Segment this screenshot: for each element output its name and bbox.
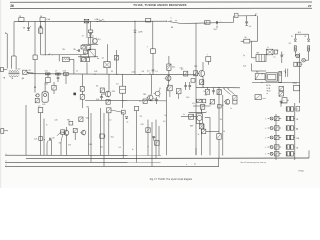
- svg-text:6,8: 6,8: [96, 86, 98, 88]
- wire Q7 down: [201, 129, 203, 155]
- label 5,6 k1: [116, 84, 118, 86]
- svg-text:Т: Т: [207, 55, 208, 57]
- box DR choke: [107, 108, 111, 113]
- resistor R22 hatched v: [279, 71, 282, 82]
- box small x123: [121, 110, 125, 114]
- box R48: [176, 89, 181, 94]
- svg-text:4п 1,0: 4п 1,0: [16, 68, 21, 70]
- rail x47 low: [47, 140, 48, 155]
- transistor Q7 big: [197, 112, 207, 124]
- svg-text:0,5: 0,5: [192, 103, 194, 105]
- wire vertical x35: [34, 21, 36, 55]
- svg-text:П13: П13: [153, 99, 156, 101]
- label BK under switch: [171, 27, 173, 29]
- node y87 x203: [202, 87, 203, 88]
- node Q7 junction: [201, 110, 202, 111]
- left cluster resistor R12: [80, 95, 84, 100]
- svg-text:2Тг: 2Тг: [140, 116, 143, 118]
- svg-text:ПЧ: ПЧ: [62, 49, 64, 51]
- capacitor C10: [155, 97, 158, 104]
- svg-text:Гн: Гн: [46, 124, 48, 126]
- terminal left edge: [1, 67, 8, 71]
- svg-text:5,0: 5,0: [284, 71, 286, 73]
- scan edge artifact left: [0, 0, 1, 188]
- label 10k low: [100, 146, 103, 148]
- tiny label pair: [263, 98, 266, 100]
- wire x110 stage: [106, 68, 108, 75]
- box R47 hatched: [168, 85, 173, 91]
- transistor Q5: [165, 75, 171, 81]
- left cluster resistor R11: [80, 87, 84, 92]
- ladder right rail: [294, 103, 296, 160]
- node bus left corner: [13, 22, 15, 56]
- svg-text:Т: Т: [147, 47, 148, 49]
- box on x219: [217, 134, 221, 140]
- svg-text:40: 40: [40, 16, 42, 18]
- box C15 below: [199, 124, 204, 129]
- label 0,25 low: [141, 124, 144, 126]
- wire step up x233: [233, 16, 235, 23]
- rail x152: [151, 122, 153, 166]
- wire right cluster to ladder: [281, 103, 287, 104]
- label 20,0 c12: [186, 97, 189, 99]
- node junction x135: [134, 21, 135, 22]
- label 0,25 q4: [180, 67, 183, 69]
- wire mid bus: [28, 74, 196, 75]
- label 0.5 top: [192, 103, 194, 105]
- capacitor C7 below bus: [57, 74, 60, 82]
- node bottom x148: [148, 146, 149, 147]
- rail x91: [90, 113, 92, 162]
- svg-text:20,0: 20,0: [186, 97, 189, 99]
- label 0,25 gr: [54, 120, 57, 122]
- svg-text:б: б: [265, 147, 266, 149]
- rail x40.5: [40, 113, 42, 156]
- svg-text:10: 10: [261, 74, 263, 76]
- resistor R9 below Q2: [106, 100, 110, 105]
- wire lamp drop a: [294, 34, 296, 38]
- svg-text:СВ: СВ: [296, 119, 298, 121]
- rail x148: [147, 120, 149, 156]
- wire x35 to bus: [34, 60, 36, 74]
- box R25 left: [255, 72, 265, 80]
- label 0,5 t1: [102, 57, 104, 59]
- resistor R28 hatched: [308, 46, 310, 51]
- wire drop x40.7: [40, 21, 42, 28]
- svg-text:TU160, TU160B AM/160 RECEIVE: TU160, TU160B AM/160 RECEIVERS: [133, 3, 186, 7]
- note under ladder: [241, 162, 267, 164]
- svg-text:1,0: 1,0: [223, 131, 225, 133]
- box R41 top: [210, 99, 214, 104]
- wire x40.7 below box: [40, 33, 42, 55]
- label 3Ch: [220, 119, 222, 121]
- svg-text:0,25: 0,25: [54, 120, 57, 122]
- rail x26 vertical: [25, 105, 27, 155]
- resistor R10 left Q3: [143, 99, 147, 103]
- node y82 x262: [261, 82, 262, 83]
- svg-text:40,5: 40,5: [172, 66, 175, 68]
- wire R33: [53, 82, 55, 94]
- label 0,25 right: [243, 65, 246, 67]
- switch bank row 1: [286, 107, 295, 111]
- wire antenna down: [6, 34, 8, 69]
- svg-text:0,5: 0,5: [119, 147, 121, 149]
- node coil out: [27, 72, 34, 73]
- label ukv ladder: [296, 138, 299, 140]
- node mid x58: [57, 74, 58, 75]
- svg-text:ВЧ: ВЧ: [74, 49, 76, 51]
- svg-text:0,25: 0,25: [243, 65, 246, 67]
- resistor R2 box: [205, 21, 210, 25]
- wire lamp top: [295, 32, 308, 34]
- transformer L2 IF can: [62, 57, 70, 61]
- fuse box crossed on bus: [84, 19, 89, 23]
- svg-text:2Т: 2Т: [55, 71, 57, 73]
- wire x116 column: [116, 50, 118, 74]
- label 6,8 bus: [142, 71, 144, 73]
- node x44 y139.7: [44, 139, 45, 140]
- transistor Q2: [104, 91, 115, 98]
- transistor Q12: [154, 90, 160, 98]
- wire Q4 emitter up: [202, 62, 204, 70]
- wire y112 row: [189, 111, 206, 113]
- label sv coil: [28, 70, 30, 72]
- svg-text:8,2: 8,2: [289, 43, 291, 45]
- rail x136.5: [136, 111, 138, 163]
- ladder labels right: [296, 119, 298, 130]
- svg-text:Д7Ж: Д7Ж: [139, 31, 143, 33]
- label P41 small: [67, 119, 73, 125]
- connector tab 2: [235, 13, 238, 17]
- wire bottom lader join: [294, 157, 296, 159]
- text block AC: [266, 84, 271, 95]
- wire y87 horizontal: [196, 86, 240, 89]
- transformer T3 double box: [266, 73, 278, 81]
- label tr t2: [243, 55, 245, 57]
- svg-text:27: 27: [308, 4, 312, 8]
- svg-text:10к: 10к: [100, 146, 103, 148]
- node mid x66: [65, 74, 66, 75]
- wire AGC line y100.5: [85, 99, 166, 102]
- svg-text:25,0: 25,0: [111, 137, 114, 139]
- wire T2 left: [252, 55, 257, 57]
- transformer T1 box: [88, 38, 93, 45]
- svg-text:0,1: 0,1: [222, 105, 224, 107]
- wire y44.4 row: [82, 43, 98, 45]
- drawing number P2-60: [299, 171, 304, 173]
- wire q12 links: [160, 88, 179, 99]
- capacitor C2 box 20/25: [39, 28, 43, 34]
- rail x159: [158, 126, 160, 155]
- wire box T down: [207, 61, 209, 64]
- node y82 x281: [280, 82, 281, 83]
- wire x223 down: [222, 95, 224, 156]
- label 100 r17: [203, 91, 206, 93]
- label 0,1 bus: [155, 71, 157, 73]
- node mid x117: [116, 74, 117, 75]
- page number 26: [10, 4, 14, 8]
- box R40 stack a: [197, 99, 202, 102]
- bus line 1 label: [6, 153, 7, 155]
- box C21 bottom: [282, 98, 289, 103]
- label ARU: [190, 124, 194, 127]
- svg-text:ЗЧ: ЗЧ: [220, 119, 222, 121]
- rail x166.4: [165, 88, 167, 156]
- label 1k right: [279, 96, 281, 98]
- fuse F1 box on bus: [19, 16, 24, 22]
- wire y71 link: [252, 64, 267, 72]
- box driver T top: [206, 55, 211, 62]
- box R38 on x116: [114, 55, 118, 60]
- label 0.05 left: [86, 118, 89, 120]
- svg-text:40,5: 40,5: [97, 39, 100, 41]
- svg-text:4,7к: 4,7к: [45, 71, 48, 73]
- capacitor ladder top: [280, 100, 285, 107]
- svg-text:100: 100: [203, 91, 206, 93]
- inductor L1 ferrite coil: [9, 68, 21, 76]
- svg-text:0,1: 0,1: [155, 71, 157, 73]
- wire fuse left: [241, 40, 244, 42]
- label 2a q1: [82, 35, 84, 37]
- wire drop x257.6 to fuse area: [257, 16, 259, 42]
- ladder top tag: [296, 106, 300, 111]
- label 30 bus: [111, 71, 113, 73]
- svg-text:св: св: [266, 93, 268, 95]
- node mid x95: [94, 74, 95, 75]
- resistor R1 box: [33, 55, 37, 60]
- wire x73.9 down: [73, 59, 75, 73]
- resistor R14 hatched: [167, 64, 175, 70]
- fuse F2 box on bus: [40, 16, 45, 22]
- svg-text:Л1: Л1: [291, 36, 293, 38]
- wire Q4 collector: [202, 77, 204, 88]
- page title: [133, 3, 186, 7]
- svg-text:СВ: СВ: [28, 70, 30, 72]
- wire lamp drop b: [308, 34, 310, 38]
- label 0.05 on bus: [132, 72, 141, 75]
- switch S1 blade: [168, 21, 181, 23]
- svg-text:0,05: 0,05: [132, 72, 135, 74]
- transistor Q10: [80, 130, 86, 136]
- rail x61 low: [61, 134, 63, 155]
- box R30: [79, 117, 83, 122]
- box R36: [84, 50, 88, 54]
- label GN: [230, 108, 232, 110]
- svg-text:6,8: 6,8: [142, 71, 144, 73]
- svg-text:П41: П41: [86, 107, 89, 109]
- node x80.9: [80, 55, 81, 63]
- capacitor C1 electrolytic: [23, 26, 31, 30]
- transistor Q9: [63, 130, 69, 136]
- label tv left cluster: [3, 78, 6, 80]
- transistor Q8 box P214: [293, 83, 300, 91]
- label DV coil: [22, 78, 25, 80]
- wire drop x87 from bus: [86, 21, 88, 38]
- fuse F3 box: [244, 37, 250, 43]
- rail x109: [108, 113, 110, 156]
- svg-text:0,5: 0,5: [276, 50, 278, 52]
- box R22a small: [273, 50, 277, 59]
- wire x35 below bus: [34, 74, 36, 93]
- label P41 top: [86, 107, 89, 109]
- svg-text:0,5: 0,5: [163, 121, 165, 123]
- label 1k low: [132, 149, 134, 151]
- rail x104: [103, 113, 105, 166]
- transistor Q4: [194, 66, 205, 77]
- switch bank row 4: [265, 135, 295, 139]
- box top right x235: [233, 100, 237, 104]
- svg-text:4,7: 4,7: [181, 69, 183, 71]
- page number 27: [308, 4, 312, 8]
- svg-text:Р2-60: Р2-60: [299, 171, 304, 173]
- svg-text:5,0: 5,0: [249, 26, 251, 28]
- switch S2 blade on bus: [97, 19, 105, 22]
- node y87 x219: [218, 87, 219, 88]
- label 0.5 rotated left: [164, 115, 166, 117]
- label 3,0 q9: [59, 142, 61, 144]
- resistor R16 below Q4: [200, 80, 204, 85]
- header top rule: [10, 1, 312, 3]
- label 1,0 low: [109, 120, 111, 122]
- node mid x140: [139, 74, 140, 75]
- wire after switch: [181, 22, 197, 24]
- box R18: [217, 90, 221, 95]
- box R40 stack b: [203, 99, 206, 103]
- capacitor C12 pair: [184, 82, 191, 90]
- node x98 junction: [97, 58, 98, 59]
- svg-text:0,5A 1: 0,5A 1: [95, 18, 100, 21]
- rail x51 low: [50, 139, 52, 155]
- bus line 4 label: [6, 165, 7, 167]
- capacitor C5 box on bus: [63, 71, 68, 76]
- bus line 3 label: [6, 161, 7, 163]
- node agc x123: [123, 100, 124, 101]
- diode D2: [294, 39, 296, 41]
- svg-text:П41: П41: [67, 119, 70, 121]
- svg-text:1,0: 1,0: [109, 120, 111, 122]
- label PCH: [62, 49, 64, 51]
- wire y56.8 row: [78, 56, 98, 58]
- label b2 lamp: [304, 36, 306, 38]
- svg-text:2а: 2а: [194, 164, 196, 166]
- svg-text:ДВ: ДВ: [296, 128, 298, 130]
- wire coil feed a: [11, 56, 13, 69]
- dark node: [73, 93, 76, 96]
- transistor Q3: [143, 94, 153, 101]
- svg-text:5,0: 5,0: [147, 71, 149, 73]
- svg-text:ЗВ: ЗВ: [296, 147, 298, 149]
- label 4,7 r15: [181, 69, 183, 71]
- label 1,0 x223: [223, 131, 225, 133]
- label b1 lamp: [291, 36, 293, 38]
- wire x59.2 down: [58, 55, 60, 62]
- wire x219 down: [218, 88, 220, 134]
- svg-text:П41: П41: [112, 91, 115, 93]
- switch S1 contacts: [166, 18, 177, 22]
- wire Q7 up: [201, 109, 203, 114]
- svg-text:Л2: Л2: [304, 36, 306, 38]
- transformer T2 striped box: [256, 52, 266, 61]
- svg-text:0,05: 0,05: [45, 84, 48, 86]
- wire Q4 base: [198, 72, 199, 74]
- label 0,5 c16: [276, 50, 278, 52]
- figure caption: [150, 178, 193, 181]
- wire pot down: [152, 53, 154, 69]
- resistor R27 hatched: [294, 46, 296, 51]
- box R19: [233, 96, 237, 101]
- box GR on x40.5: [38, 105, 43, 112]
- box x155 low: [155, 141, 160, 146]
- box top x136: [134, 106, 138, 110]
- svg-text:0,05: 0,05: [86, 118, 89, 120]
- wire diag to right: [111, 110, 124, 113]
- svg-text:30: 30: [111, 71, 113, 73]
- label 0,1 sw: [222, 105, 224, 107]
- wire Q2 base left: [102, 93, 105, 96]
- label 1,5 r10: [139, 101, 141, 103]
- wire top bus: [14, 20, 166, 22]
- svg-text:Гр: Гр: [39, 105, 41, 107]
- bus line 3: [5, 161, 161, 163]
- svg-text:ПВ 1к: ПВ 1к: [266, 90, 270, 92]
- capacitor C14 hang: [212, 88, 215, 95]
- header bottom rule: [10, 7, 312, 9]
- crystal X1 box: [266, 47, 273, 55]
- box R45 stack b: [279, 92, 284, 96]
- wire y116 left: [181, 114, 196, 116]
- box small x40: [39, 137, 43, 141]
- label 0,05 c9: [96, 99, 99, 101]
- label small tick x150: [149, 73, 151, 75]
- wire Q7 right: [205, 117, 210, 155]
- svg-text:+: +: [283, 100, 284, 102]
- svg-text:б: б: [265, 118, 266, 120]
- capacitor C11: [147, 70, 154, 75]
- svg-text:Часть II показана для вар. схе: Часть II показана для вар. схем. пр.: [241, 162, 267, 164]
- arrow pot wiper: [57, 131, 61, 135]
- resistor R8 left of Q2: [100, 88, 104, 93]
- box R29: [61, 130, 65, 134]
- label 2k q7: [209, 103, 211, 105]
- resistor R20 hatched: [200, 105, 204, 110]
- label gn2 rail: [163, 121, 165, 123]
- label 0,5 low: [119, 147, 121, 149]
- bus line 4: [5, 165, 219, 167]
- diode D1: [134, 30, 143, 33]
- capacitor C20 bars: [40, 25, 42, 28]
- node mid x48: [47, 73, 48, 74]
- rail x88.6: [88, 108, 90, 155]
- box volume pot: [147, 47, 156, 54]
- wire x251.5 down: [251, 41, 253, 55]
- svg-text:5: 5: [6, 161, 7, 163]
- jack Gn2 left edge: [1, 129, 8, 134]
- svg-text:3,0: 3,0: [59, 142, 61, 144]
- label 1.5A: [46, 18, 50, 21]
- resistor R15: [184, 71, 188, 76]
- box R33 mid: [52, 85, 56, 90]
- rail x44: [43, 119, 45, 156]
- svg-text:Гн: Гн: [230, 108, 232, 110]
- bus line 2 right corner: [308, 150, 310, 158]
- capacitor C4 electrolytic: [245, 22, 251, 28]
- svg-text:УКВ: УКВ: [296, 138, 299, 140]
- box x219 small: [218, 105, 222, 108]
- page background: [0, 0, 320, 188]
- label 40,5 q1: [97, 39, 100, 41]
- wire vertical x45.2: [44, 21, 46, 55]
- label zv ladder: [296, 147, 298, 149]
